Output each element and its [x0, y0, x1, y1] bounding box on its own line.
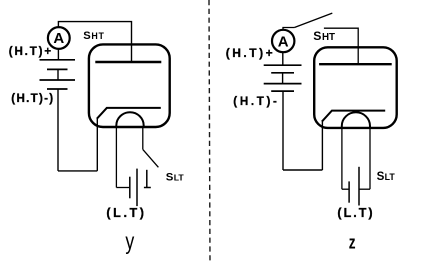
switch contact wire to plate (right)	[324, 28, 358, 64]
filament right leg (left)	[142, 128, 144, 149]
wire ammeter top (right)	[283, 28, 294, 30]
filament left leg (left)	[115, 128, 117, 188]
svg-text:A: A	[53, 30, 64, 47]
wire to LT battery (left)	[116, 187, 129, 189]
filament left leg (right)	[341, 129, 343, 190]
dashed divider line	[209, 0, 210, 262]
battery LT (left): plates	[130, 169, 151, 207]
tube envelope (left)	[89, 44, 170, 127]
svg-text:SHT: SHT	[83, 30, 104, 42]
cathode plate with bent end (right)	[322, 111, 385, 122]
svg-text:(H.T)+: (H.T)+	[226, 46, 273, 60]
wire up to cathode (right)	[321, 121, 323, 170]
svg-text:z: z	[349, 232, 356, 253]
wire between battery cells	[57, 69, 59, 80]
svg-text:A: A	[278, 33, 289, 50]
wire to LT battery (right)	[342, 188, 349, 190]
ammeter A (left)	[48, 27, 70, 49]
ammeter A (right)	[272, 30, 294, 52]
wire between battery cells (right)	[282, 73, 284, 84]
svg-text:y: y	[125, 228, 134, 254]
filament arc (right)	[342, 112, 370, 128]
open switch blade SHT (right)	[294, 13, 332, 27]
wire bottom horizontal to cathode	[58, 170, 97, 172]
wire ammeter bottom to HT battery (right)	[282, 53, 284, 65]
wire up to cathode	[96, 118, 98, 171]
svg-text:(H.T)+: (H.T)+	[9, 45, 52, 58]
filament arc (left)	[116, 112, 143, 128]
filament right leg (right, switch closed)	[369, 129, 371, 190]
tube envelope (right)	[314, 47, 397, 128]
svg-text:SLT: SLT	[166, 171, 185, 183]
open switch blade SLT (left)	[143, 149, 159, 167]
wire ammeter top to plate (closed switch SHT path)	[58, 22, 131, 62]
wire HT battery negative down (right)	[282, 91, 284, 170]
wire ammeter bottom to HT battery	[57, 50, 59, 61]
wire HT battery negative down	[57, 89, 59, 171]
battery HT (left): long-short-long-short plates	[40, 60, 76, 89]
wire LT battery to right leg (right)	[359, 188, 370, 190]
anode plate (left)	[95, 61, 161, 63]
cathode plate with bent end (left)	[97, 108, 161, 119]
battery HT (right): long-short-long-short plates	[264, 65, 302, 91]
anode plate (right)	[319, 63, 392, 65]
svg-text:SHT: SHT	[313, 29, 335, 43]
wire bottom horizontal (right)	[283, 169, 322, 171]
svg-text:SLT: SLT	[377, 170, 396, 183]
svg-text:(H.T)-): (H.T)-)	[11, 92, 53, 105]
battery LT (right): short and long plates	[349, 167, 359, 206]
